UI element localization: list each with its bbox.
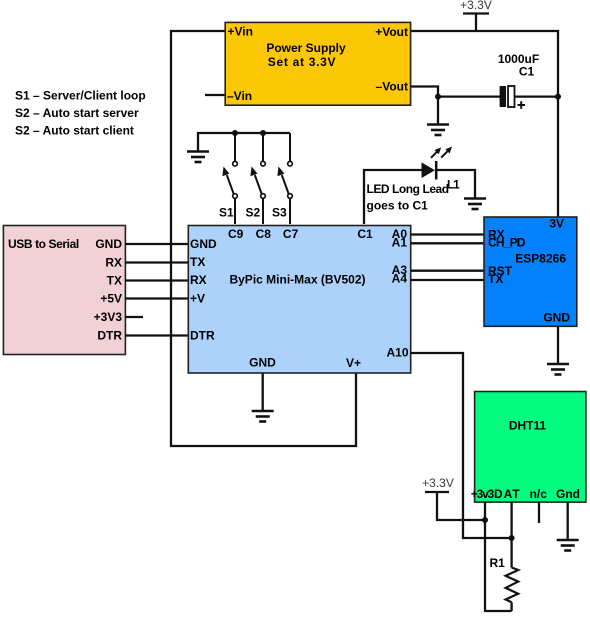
wire +Vout to ESP8266 3V: [411, 31, 558, 217]
capacitor C1: [500, 86, 525, 109]
svg-text:+5V: +5V: [100, 292, 122, 306]
ground (BV502): [252, 411, 274, 422]
svg-text:GND: GND: [190, 237, 217, 251]
svg-text:C8: C8: [256, 227, 272, 241]
wire +Vin left rail to V+: [171, 31, 356, 446]
svg-text:GND: GND: [249, 356, 276, 370]
legend text S1/S2 modes: [15, 89, 146, 138]
ground (ESP8266): [547, 364, 569, 375]
svg-text:R1: R1: [490, 556, 506, 570]
ground (below -Vout junction): [437, 97, 439, 124]
wire A0 to ESP RX: [411, 233, 485, 235]
svg-text:CH_PD: CH_PD: [488, 236, 526, 250]
svg-text:+3V3: +3V3: [94, 310, 123, 324]
svg-text:S1 – Server/Client loop: S1 – Server/Client loop: [15, 89, 146, 103]
svg-text:–Vin: –Vin: [227, 89, 252, 103]
svg-text:TX: TX: [107, 274, 122, 288]
power +3.3V (top): [460, 0, 492, 31]
svg-text:S2 – Auto start client: S2 – Auto start client: [15, 124, 134, 138]
resistor R1: [506, 568, 519, 603]
svg-text:+V: +V: [190, 292, 205, 306]
svg-text:goes to C1: goes to C1: [367, 199, 429, 213]
ByPic Mini-Max BV502 module: [188, 226, 410, 374]
wire USB +5V to BV502 +V: [125, 297, 189, 299]
svg-text:n/c: n/c: [530, 487, 548, 501]
svg-text:+Vout: +Vout: [375, 25, 408, 39]
ground (switch rail): [187, 152, 209, 163]
wire capacitor C1 to +3.3V rail: [514, 95, 558, 97]
label LED note: [367, 182, 449, 213]
svg-text:S2: S2: [246, 206, 261, 220]
svg-text:DTR: DTR: [97, 329, 122, 343]
svg-text:+3v3: +3v3: [471, 487, 495, 501]
svg-text:+3.3V: +3.3V: [422, 476, 454, 490]
wire USB TX to BV502 RX: [125, 279, 189, 281]
svg-text:ESP8266: ESP8266: [515, 252, 566, 266]
wire R1 bottom lead: [510, 602, 512, 611]
svg-text:C1: C1: [519, 65, 535, 79]
wire A10 to DHT11 DAT: [411, 353, 512, 538]
svg-text:S1: S1: [219, 206, 234, 220]
svg-text:L1: L1: [447, 178, 460, 192]
wire n/c stub: [538, 502, 540, 523]
node switch S1 rail junction: [232, 130, 238, 136]
wire A1 to ESP CH_PD: [411, 242, 485, 244]
wire DAT node to R1 top: [510, 538, 512, 568]
svg-text:C7: C7: [283, 227, 299, 241]
svg-text:A1: A1: [392, 236, 408, 250]
svg-text:DAT: DAT: [494, 487, 520, 501]
power supply module: [225, 22, 410, 105]
svg-text:DTR: DTR: [190, 329, 215, 343]
wire USB DTR to BV502 DTR: [125, 334, 189, 336]
wire ESP GND to ground: [557, 326, 559, 363]
svg-text:Gnd: Gnd: [556, 487, 580, 501]
switch S3: [277, 133, 292, 224]
svg-text:GND: GND: [95, 237, 122, 251]
svg-text:RX: RX: [190, 273, 207, 287]
switch S2: [250, 133, 265, 224]
wire -Vin stub: [205, 94, 226, 96]
LED L1: [422, 147, 453, 180]
svg-text:–Vout: –Vout: [376, 80, 408, 94]
label 1000uF C1: [498, 52, 539, 79]
svg-text:A4: A4: [392, 272, 408, 286]
wire USB RX to BV502 TX: [125, 261, 189, 263]
DHT11 module: [471, 392, 586, 503]
svg-text:S2 – Auto start server: S2 – Auto start server: [15, 106, 139, 120]
wire LED cathode to ground: [436, 170, 475, 198]
svg-text:V+: V+: [346, 356, 361, 370]
svg-text:USB to Serial: USB to Serial: [8, 237, 79, 251]
wire switch common rail: [198, 133, 290, 151]
ESP8266 module: [484, 217, 577, 327]
wire BV502 GND to ground: [262, 373, 264, 411]
svg-text:C9: C9: [228, 227, 244, 241]
svg-text:TX: TX: [190, 255, 205, 269]
wire DHT Gnd to ground: [567, 502, 569, 540]
svg-text:+3.3V: +3.3V: [460, 0, 492, 12]
node +3.3V rail junction: [555, 94, 561, 100]
ground (LED): [464, 199, 486, 210]
wire +3V3 stub: [125, 316, 143, 318]
svg-text:Set at 3.3V: Set at 3.3V: [268, 55, 336, 69]
wire DAT down to node: [510, 502, 512, 538]
svg-text:TX: TX: [488, 272, 503, 286]
wire DHT +3v3 to R1 bottom: [485, 502, 512, 611]
svg-text:DHT11: DHT11: [509, 419, 547, 433]
svg-text:Power Supply: Power Supply: [266, 41, 346, 55]
svg-text:C1: C1: [357, 227, 373, 241]
node switch S2 rail junction: [260, 130, 266, 136]
wire C1 pin to LED anode: [364, 170, 422, 224]
switch S1: [222, 133, 237, 224]
ground (DHT11): [557, 540, 579, 551]
node +3v3 junction: [482, 517, 488, 523]
svg-text:ByPic Mini-Max (BV502): ByPic Mini-Max (BV502): [229, 273, 365, 287]
svg-text:GND: GND: [543, 311, 570, 325]
wire -Vout to capacitor C1: [411, 87, 500, 97]
svg-text:S3: S3: [272, 206, 287, 220]
power +3.3V (DHT11): [422, 476, 485, 520]
node DAT junction: [509, 535, 515, 541]
svg-text:LED Long Lead: LED Long Lead: [367, 182, 449, 196]
svg-text:RX: RX: [105, 256, 122, 270]
wire USB GND to BV502 GND: [125, 243, 189, 245]
svg-text:+Vin: +Vin: [228, 25, 253, 39]
svg-text:3V: 3V: [549, 217, 564, 231]
svg-text:A10: A10: [386, 346, 408, 360]
node -Vout junction: [435, 94, 441, 100]
wire A3 to ESP RST: [411, 270, 485, 272]
wire A4 to ESP TX: [411, 279, 485, 281]
USB to Serial module: [3, 226, 125, 355]
